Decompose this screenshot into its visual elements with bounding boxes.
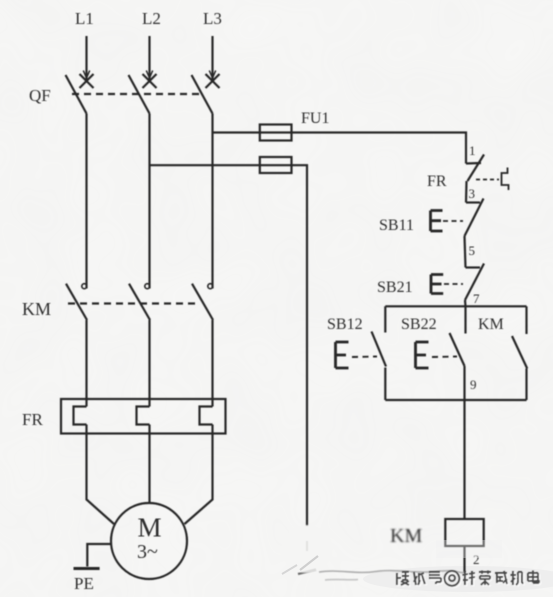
watermark text 搜狐号@科荣威机电 (approximated glyph strokes) — [397, 571, 540, 588]
coil KM — [445, 519, 483, 546]
wire L3 incoming — [211, 36, 213, 80]
breaker QF pole 2 — [129, 71, 157, 114]
node L1 — [75, 9, 94, 28]
wire L1 to KM — [85, 114, 87, 289]
node 1 — [469, 143, 476, 158]
watermark fade blob over return wire — [281, 525, 333, 573]
wire tap upper to FU1 — [213, 131, 260, 133]
label SB21 — [377, 279, 413, 296]
wire SB11 to SB21 — [465, 236, 466, 268]
svg-text:L2: L2 — [142, 9, 161, 28]
breaker QF pole 3 — [192, 71, 220, 114]
pushbutton SB12 (NO start) — [336, 306, 387, 400]
svg-text:KM: KM — [478, 316, 504, 333]
breaker QF pole 1 — [66, 71, 94, 114]
relay contact FR (NC) — [466, 155, 509, 191]
relay FR heater 2 — [137, 407, 150, 425]
svg-text:3: 3 — [469, 186, 476, 201]
wire FR to motor 1 — [87, 425, 115, 525]
breaker QF label — [29, 86, 51, 105]
svg-text:KM: KM — [390, 525, 422, 547]
label KM aux — [478, 316, 504, 333]
svg-text:9: 9 — [470, 377, 477, 392]
watermark @ — [445, 571, 461, 587]
relay FR heater 1 — [74, 407, 87, 425]
wire tap lower to FU1 — [150, 164, 260, 166]
svg-text:L1: L1 — [75, 9, 94, 28]
contactor KM label main — [22, 299, 51, 319]
svg-text:QF: QF — [29, 86, 51, 105]
motor M — [111, 503, 187, 579]
label SB11 — [379, 217, 414, 234]
svg-text:1: 1 — [469, 143, 476, 158]
svg-text:3~: 3~ — [137, 541, 158, 563]
fuse FU1 upper — [260, 125, 292, 141]
coil KM label — [390, 525, 422, 547]
svg-text:PE: PE — [74, 574, 94, 593]
wire parallel bottom rail — [385, 399, 526, 401]
contactor KM pole 3 — [192, 284, 213, 407]
svg-text:5: 5 — [469, 243, 476, 258]
node 5 — [469, 243, 476, 258]
wire FR to motor 3 — [185, 425, 213, 525]
node 3 — [469, 186, 476, 201]
fuse FU1 label — [301, 110, 329, 127]
wire motor PE — [87, 544, 112, 567]
wire FU1 lower to return — [292, 165, 308, 526]
ground PE — [74, 567, 100, 570]
wire parallel top rail — [385, 305, 526, 307]
wire L1 incoming — [85, 36, 87, 80]
wire FR to SB11 — [465, 181, 468, 203]
wire SB22 to bottom rail — [463, 366, 465, 400]
wire bottom return — [298, 570, 316, 575]
node 2 — [473, 552, 480, 567]
relay FR box — [61, 399, 226, 434]
svg-text:SB11: SB11 — [379, 217, 414, 234]
label SB12 — [327, 316, 363, 333]
label SB22 — [401, 316, 437, 333]
watermark band — [363, 566, 553, 592]
svg-text:SB21: SB21 — [377, 279, 413, 296]
label FR control — [427, 173, 447, 190]
relay FR heater 3 — [200, 407, 213, 425]
wire node7 junction — [464, 300, 467, 306]
contactor KM linkage dashed — [68, 302, 199, 304]
svg-text:KM: KM — [22, 299, 51, 319]
fuse FU1 lower — [260, 157, 292, 173]
svg-text:M: M — [138, 513, 162, 543]
svg-text:L3: L3 — [203, 9, 222, 28]
pushbutton SB11 (NC stop) — [431, 199, 484, 237]
node 9 — [470, 377, 477, 392]
breaker QF linkage dashed — [72, 93, 203, 95]
wire coil to bottom — [463, 546, 465, 573]
node L2 — [142, 9, 161, 28]
wire FU1 upper to control — [292, 133, 467, 164]
label PE — [74, 574, 94, 593]
wire L2 incoming — [148, 36, 150, 80]
pushbutton SB22 (NO start) — [416, 306, 466, 368]
svg-text:FR: FR — [427, 173, 447, 190]
wire L2 to KM — [148, 114, 150, 289]
contactor KM pole 1 — [66, 284, 87, 407]
contactor KM pole 2 — [129, 284, 150, 407]
pushbutton SB21 (NC stop) — [431, 264, 484, 301]
svg-text:SB22: SB22 — [401, 316, 437, 333]
node 7 — [473, 291, 480, 306]
wire L3 to KM — [211, 114, 213, 289]
node L3 — [203, 9, 222, 28]
svg-text:FR: FR — [22, 410, 43, 429]
wire to KM coil — [463, 400, 465, 519]
wire FR to motor 2 — [148, 425, 150, 504]
contact KM auxiliary (NO) — [512, 306, 527, 400]
svg-text:7: 7 — [473, 291, 480, 306]
svg-text:SB12: SB12 — [327, 316, 363, 333]
relay FR label main — [22, 410, 43, 429]
svg-text:FU1: FU1 — [301, 110, 329, 127]
